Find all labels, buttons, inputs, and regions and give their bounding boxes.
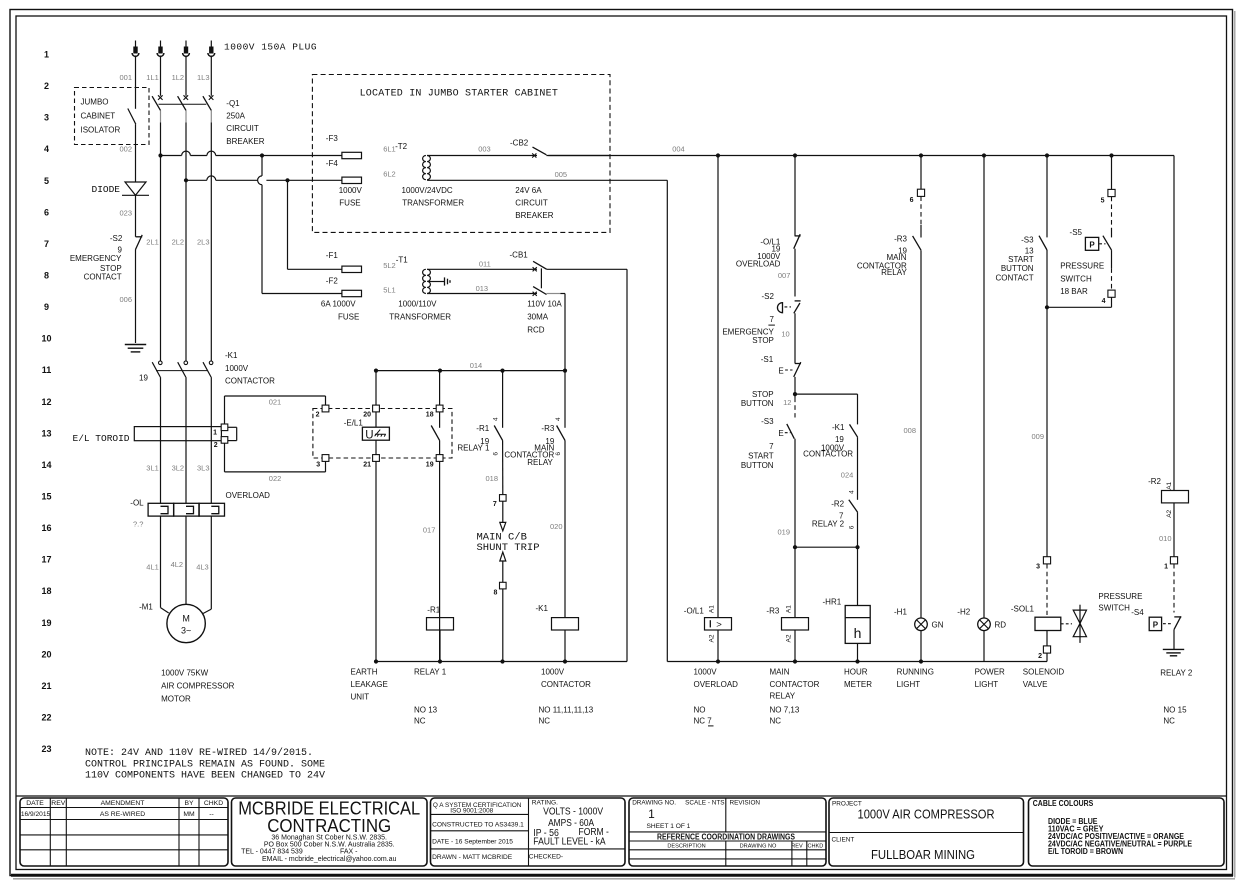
wire 005 down to bottom bus left end bbox=[666, 180, 668, 661]
labels O/L1 19 1000V OVERLOAD bbox=[736, 238, 781, 269]
svg-text:CONTRACTING: CONTRACTING bbox=[267, 815, 391, 836]
svg-text:30MA: 30MA bbox=[527, 313, 549, 322]
svg-text:SWITCH: SWITCH bbox=[1060, 275, 1092, 284]
wire 011 to right edge of 110V section bbox=[547, 269, 627, 661]
pressure switch S5 bbox=[1070, 197, 1112, 291]
grid row numbers 1-23 bbox=[41, 50, 51, 755]
transformer T1 1000/110V bbox=[396, 256, 431, 294]
svg-text:-H1: -H1 bbox=[894, 607, 907, 616]
svg-text:VOLTS - 1000V: VOLTS - 1000V bbox=[543, 806, 603, 817]
svg-text:VALVE: VALVE bbox=[1023, 680, 1048, 689]
overload contact O/L1 bbox=[794, 234, 801, 296]
svg-text:110V COMPONENTS HAVE BEEN CHAN: 110V COMPONENTS HAVE BEEN CHANGED TO 24V bbox=[85, 771, 325, 782]
stop button S1 bbox=[761, 355, 801, 394]
label 110V 10A 30MA RCD bbox=[527, 300, 562, 335]
wire 004 top bus bbox=[548, 144, 1174, 157]
svg-text:21: 21 bbox=[41, 681, 51, 691]
overload relay coil O/L1 I> bbox=[684, 605, 732, 662]
svg-text:1000V AIR COMPRESSOR: 1000V AIR COMPRESSOR bbox=[858, 806, 995, 821]
svg-text:CABLE COLOURS: CABLE COLOURS bbox=[1033, 799, 1094, 808]
contactor K1 main poles bbox=[152, 361, 213, 377]
svg-text:9: 9 bbox=[44, 302, 49, 312]
svg-text:-R3: -R3 bbox=[766, 607, 779, 616]
svg-text:-HR1: -HR1 bbox=[823, 598, 842, 607]
wire label 024 bbox=[841, 471, 854, 480]
svg-text:METER: METER bbox=[844, 680, 872, 689]
svg-text:NC: NC bbox=[539, 717, 551, 726]
svg-text:NO 11,11,11,13: NO 11,11,11,13 bbox=[539, 706, 594, 715]
svg-text:-S5: -S5 bbox=[1070, 228, 1083, 237]
wire label 010 bbox=[1159, 534, 1172, 543]
dashed box LOCATED IN JUMBO STARTER CABINET bbox=[312, 75, 610, 233]
svg-text:009: 009 bbox=[1031, 432, 1044, 441]
svg-text:22: 22 bbox=[41, 712, 51, 722]
svg-text:>: > bbox=[716, 619, 722, 630]
labels MAIN CONTACTOR RELAY / NO 7,13 / NC bbox=[770, 668, 820, 726]
svg-text:5L1: 5L1 bbox=[383, 286, 396, 295]
svg-text:110V 10A: 110V 10A bbox=[527, 300, 562, 309]
svg-text:17: 17 bbox=[41, 555, 51, 565]
svg-text:FAULT LEVEL - kA: FAULT LEVEL - kA bbox=[533, 837, 606, 848]
svg-text:007: 007 bbox=[778, 271, 791, 280]
svg-text:LOCATED IN JUMBO STARTER CABIN: LOCATED IN JUMBO STARTER CABINET bbox=[360, 88, 558, 99]
wire 009 down to solenoid bbox=[1031, 307, 1047, 556]
svg-text:FUSE: FUSE bbox=[339, 198, 360, 207]
solenoid terminal 3 bbox=[1036, 557, 1051, 571]
wire label 007 bbox=[778, 271, 791, 280]
svg-text:EARTH: EARTH bbox=[351, 668, 378, 677]
svg-text:TEL - 0447 834 539: TEL - 0447 834 539 bbox=[241, 849, 303, 856]
labels R3 19 MAIN CONTACTOR RELAY right bbox=[857, 234, 908, 277]
wire R3 coil feed bbox=[794, 547, 796, 617]
svg-text:008: 008 bbox=[903, 426, 916, 435]
svg-text:BY: BY bbox=[184, 800, 194, 807]
running light H1 bbox=[894, 607, 944, 661]
svg-text:P: P bbox=[1153, 621, 1159, 630]
svg-text:6: 6 bbox=[555, 452, 562, 456]
svg-text:h: h bbox=[854, 625, 862, 641]
svg-text:EMERGENCY: EMERGENCY bbox=[70, 254, 122, 263]
wire 003 from T2 to CB2 bbox=[427, 144, 537, 155]
svg-text:19: 19 bbox=[41, 618, 51, 628]
svg-text:CONTACTOR: CONTACTOR bbox=[803, 450, 853, 459]
svg-text:20: 20 bbox=[363, 412, 371, 419]
overload OL heater elements bbox=[148, 503, 224, 609]
labels OL OVERLOAD bbox=[130, 491, 270, 528]
svg-text:3: 3 bbox=[44, 113, 49, 123]
svg-text:BUTTON: BUTTON bbox=[1001, 264, 1034, 273]
svg-text:21: 21 bbox=[363, 462, 371, 469]
wire F4 feed line bbox=[184, 176, 342, 183]
svg-text:UNIT: UNIT bbox=[351, 693, 370, 702]
note text 24V and 110V re-wired bbox=[85, 747, 325, 781]
svg-text:LEAKAGE: LEAKAGE bbox=[351, 680, 388, 689]
svg-text:A1: A1 bbox=[1166, 481, 1173, 489]
svg-text:U: U bbox=[365, 430, 373, 442]
svg-text:4L2: 4L2 bbox=[171, 560, 184, 569]
svg-text:006: 006 bbox=[119, 295, 132, 304]
svg-text:3~: 3~ bbox=[181, 626, 191, 636]
shunt trip terminal 7 bbox=[493, 495, 506, 509]
svg-text:15: 15 bbox=[41, 491, 51, 501]
svg-text:7: 7 bbox=[769, 315, 774, 324]
svg-text:2L3: 2L3 bbox=[197, 238, 210, 247]
svg-text:1000V 75KW: 1000V 75KW bbox=[161, 669, 209, 678]
labels SOLENOID VALVE bbox=[1023, 668, 1065, 690]
svg-text:?.?: ?.? bbox=[133, 520, 143, 529]
svg-text:CHKD: CHKD bbox=[807, 844, 823, 850]
svg-text:SWITCH: SWITCH bbox=[1098, 604, 1130, 613]
svg-text:CHECKED-: CHECKED- bbox=[529, 854, 563, 861]
svg-text:NO 7,13: NO 7,13 bbox=[770, 706, 800, 715]
svg-text:003: 003 bbox=[478, 144, 491, 153]
circuit breaker Q1 poles bbox=[152, 95, 213, 361]
svg-text:4: 4 bbox=[493, 417, 500, 421]
labels RELAY 1 / NO 13 NC bbox=[414, 668, 447, 726]
fuse F4 bbox=[326, 159, 362, 184]
svg-text:DATE - 16 September 2015: DATE - 16 September 2015 bbox=[432, 839, 513, 846]
E/L toroid bbox=[134, 424, 236, 449]
svg-text:-R2: -R2 bbox=[831, 499, 844, 508]
svg-text:6: 6 bbox=[44, 207, 49, 217]
svg-text:1000V: 1000V bbox=[541, 668, 565, 677]
svg-text:18: 18 bbox=[41, 586, 51, 596]
svg-text:-R1: -R1 bbox=[476, 424, 489, 433]
svg-text:-K1: -K1 bbox=[536, 604, 549, 613]
wire phases through toroid to overload bbox=[161, 377, 212, 503]
svg-text:AIR COMPRESSOR: AIR COMPRESSOR bbox=[161, 681, 235, 690]
svg-text:A1: A1 bbox=[786, 605, 793, 613]
svg-text:CONTACTOR: CONTACTOR bbox=[770, 680, 820, 689]
svg-text:START: START bbox=[748, 451, 774, 460]
svg-text:-Q1: -Q1 bbox=[226, 99, 240, 108]
svg-text:1: 1 bbox=[213, 429, 217, 436]
svg-text:LIGHT: LIGHT bbox=[897, 680, 921, 689]
solenoid valve SOL1 coil bbox=[1011, 564, 1072, 631]
svg-text:-S3: -S3 bbox=[1021, 235, 1034, 244]
labels S2 emergency stop contact bbox=[70, 234, 123, 281]
svg-text:CHKD: CHKD bbox=[204, 800, 223, 807]
svg-text:CLIENT: CLIENT bbox=[832, 837, 855, 844]
motor M1 bbox=[139, 603, 211, 643]
label 1000V FUSE (24V side) bbox=[339, 186, 363, 208]
wire labels 2L1 2L2 2L3 bbox=[146, 238, 209, 247]
svg-text:RELAY: RELAY bbox=[527, 458, 553, 467]
svg-text:12: 12 bbox=[783, 398, 791, 407]
wire phase drops from plugs bbox=[136, 57, 212, 109]
svg-text:RELAY 1: RELAY 1 bbox=[457, 443, 490, 452]
shunt trip arrows MAIN C/B SHUNT TRIP bbox=[477, 501, 540, 582]
labels S3 13 START BUTTON CONTACT bbox=[996, 235, 1035, 282]
wire drop to F2 line with hop bbox=[258, 156, 342, 294]
labels RUNNING LIGHT bbox=[897, 668, 934, 690]
svg-text:DRAWN - MATT MCBRIDE: DRAWN - MATT MCBRIDE bbox=[432, 854, 513, 861]
svg-text:REFERENCE COORDINATION DRAWING: REFERENCE COORDINATION DRAWINGS bbox=[657, 833, 795, 842]
svg-text:13: 13 bbox=[41, 428, 51, 438]
labels R2 7 RELAY 2 aux bbox=[812, 499, 855, 529]
wire start/stop chain top bbox=[794, 156, 796, 236]
project client box bbox=[829, 798, 1024, 866]
svg-text:-K1: -K1 bbox=[225, 351, 238, 360]
isolator switch blade bbox=[128, 109, 136, 183]
valve symbol bbox=[1073, 605, 1086, 643]
svg-text:SHEET 1 OF 1: SHEET 1 OF 1 bbox=[647, 823, 691, 830]
svg-text:-SOL1: -SOL1 bbox=[1011, 605, 1035, 614]
svg-text:START: START bbox=[1008, 255, 1034, 264]
svg-text:1L2: 1L2 bbox=[172, 73, 185, 82]
svg-text:-F3: -F3 bbox=[326, 134, 339, 143]
svg-text:CONTROL PRINCIPALS REMAIN AS F: CONTROL PRINCIPALS REMAIN AS FOUND. SOME bbox=[85, 759, 325, 770]
svg-text:19: 19 bbox=[835, 435, 844, 444]
label 6A 1000V FUSE bbox=[321, 300, 359, 322]
svg-text:DIODE: DIODE bbox=[92, 184, 121, 195]
svg-text:CIRCUIT: CIRCUIT bbox=[515, 198, 548, 207]
relay contact R3 running light bbox=[913, 196, 921, 618]
svg-text:-T2: -T2 bbox=[395, 142, 408, 151]
svg-text:DESCRIPTION: DESCRIPTION bbox=[667, 844, 705, 850]
labels 1000V OVERLOAD / NO / NC 7 bbox=[694, 668, 739, 726]
svg-text:013: 013 bbox=[476, 284, 489, 293]
svg-text:A2: A2 bbox=[709, 634, 716, 642]
relay 2 terminal 1 bbox=[1164, 557, 1178, 571]
svg-text:NO 13: NO 13 bbox=[414, 706, 438, 715]
svg-text:-M1: -M1 bbox=[139, 603, 153, 612]
cable colours box bbox=[1029, 798, 1225, 866]
labels STOP BUTTON 12 bbox=[741, 390, 792, 408]
svg-text:CONTACTOR: CONTACTOR bbox=[225, 377, 275, 386]
wire 021 toroid to E/L1 unit bbox=[225, 396, 326, 424]
emergency stop contact S2 bbox=[136, 235, 143, 343]
wire 005 line from T2 secondary bbox=[427, 170, 667, 180]
svg-text:NO 15: NO 15 bbox=[1163, 706, 1187, 715]
svg-text:RELAY 2: RELAY 2 bbox=[812, 519, 845, 528]
circuit breaker CB2 bbox=[510, 138, 610, 157]
hour meter HR1 bbox=[823, 547, 871, 661]
label Q1 250A CIRCUIT BREAKER bbox=[226, 99, 264, 146]
svg-text:PRESSURE: PRESSURE bbox=[1098, 592, 1142, 601]
svg-text:DRAWING NO: DRAWING NO bbox=[740, 844, 777, 850]
svg-text:-F2: -F2 bbox=[326, 277, 339, 286]
wire labels 3L1 3L2 3L3 bbox=[146, 463, 209, 472]
contactor coil K1 bbox=[536, 604, 579, 662]
relay 2 column bbox=[1173, 156, 1175, 491]
svg-text:5L2: 5L2 bbox=[383, 261, 396, 270]
svg-text:2: 2 bbox=[1038, 653, 1042, 660]
svg-text:24V 6A: 24V 6A bbox=[515, 186, 542, 195]
labels 7 START BUTTON bbox=[741, 442, 774, 470]
svg-text:FULLBOAR MINING: FULLBOAR MINING bbox=[871, 847, 975, 862]
relay contact R3 main contactor relay bbox=[557, 371, 565, 618]
bottom bus 24V section bbox=[667, 659, 1047, 663]
wire 013 drop to 014 bus bbox=[547, 294, 566, 371]
svg-text:E/L TOROID: E/L TOROID bbox=[73, 433, 130, 444]
svg-text:CONTACT: CONTACT bbox=[84, 273, 122, 282]
svg-text:4: 4 bbox=[555, 417, 562, 421]
svg-text:NC 7: NC 7 bbox=[694, 717, 713, 726]
svg-text:6: 6 bbox=[848, 525, 855, 529]
emergency stop S2 bbox=[777, 301, 800, 364]
svg-text:BREAKER: BREAKER bbox=[515, 211, 553, 220]
svg-text:6A 1000V: 6A 1000V bbox=[321, 300, 356, 309]
svg-text:018: 018 bbox=[485, 474, 498, 483]
transformer screen earth bbox=[429, 277, 450, 285]
svg-text:-K1: -K1 bbox=[832, 423, 845, 432]
svg-text:MOTOR: MOTOR bbox=[161, 694, 191, 703]
svg-text:-O/L1: -O/L1 bbox=[684, 607, 705, 616]
svg-text:-S1: -S1 bbox=[761, 355, 774, 364]
svg-text:3L3: 3L3 bbox=[197, 463, 210, 472]
wire label 008 bbox=[903, 426, 916, 435]
svg-text:7: 7 bbox=[769, 442, 774, 451]
svg-text:19: 19 bbox=[426, 462, 434, 469]
ground symbol below S2 bbox=[125, 345, 146, 352]
wire labels 5L2 5L1 bbox=[383, 261, 396, 295]
svg-text:GN: GN bbox=[932, 620, 944, 629]
svg-text:3L1: 3L1 bbox=[146, 463, 159, 472]
svg-text:4L1: 4L1 bbox=[146, 563, 159, 572]
wire label 006 bbox=[119, 295, 132, 304]
transformer T2 1000V/24VDC bbox=[395, 142, 430, 180]
svg-text:REV: REV bbox=[51, 800, 65, 807]
svg-text:5: 5 bbox=[44, 176, 49, 186]
svg-text:RELAY: RELAY bbox=[881, 268, 907, 277]
label 1000V/24VDC TRANSFORMER bbox=[402, 186, 465, 208]
svg-text:-H2: -H2 bbox=[957, 607, 970, 616]
labels K1 19 1000V CONTACTOR aux bbox=[803, 423, 853, 459]
start button S3 bbox=[761, 394, 795, 547]
svg-text:12: 12 bbox=[41, 397, 51, 407]
labels R1 RELAY 1 contact bbox=[457, 417, 499, 456]
svg-text:ISO 9001:2008: ISO 9001:2008 bbox=[450, 807, 493, 814]
svg-text:2: 2 bbox=[44, 81, 49, 91]
labels PRESSURE SWITCH 18 BAR bbox=[1060, 261, 1104, 296]
svg-text:024: 024 bbox=[841, 471, 854, 480]
svg-text:6: 6 bbox=[493, 452, 500, 456]
labels 1000V CONTACTOR / NO NC bbox=[539, 668, 594, 726]
wire 011 from T1 to CB1 bbox=[427, 259, 537, 269]
svg-text:1: 1 bbox=[648, 807, 655, 821]
svg-text:RELAY: RELAY bbox=[770, 692, 796, 701]
svg-text:E: E bbox=[778, 429, 783, 438]
svg-text:3L2: 3L2 bbox=[172, 463, 185, 472]
svg-text:20: 20 bbox=[41, 649, 51, 659]
label K1 1000V CONTACTOR bbox=[139, 351, 275, 386]
svg-text:E/L TOROID = BROWN: E/L TOROID = BROWN bbox=[1048, 847, 1123, 856]
svg-text:1000V: 1000V bbox=[339, 186, 363, 195]
svg-text:TRANSFORMER: TRANSFORMER bbox=[389, 313, 451, 322]
svg-text:2L1: 2L1 bbox=[146, 238, 159, 247]
svg-text:11: 11 bbox=[42, 365, 52, 375]
svg-text:FAX -: FAX - bbox=[340, 849, 358, 856]
svg-text:A1: A1 bbox=[709, 605, 716, 613]
labels PRESSURE SWITCH -S4 bbox=[1098, 592, 1144, 617]
svg-text:RELAY 2: RELAY 2 bbox=[1160, 669, 1193, 678]
svg-text:4: 4 bbox=[44, 144, 49, 154]
svg-text:3: 3 bbox=[1036, 563, 1040, 570]
svg-text:A2: A2 bbox=[1166, 509, 1173, 517]
svg-text:SCALE - NTS: SCALE - NTS bbox=[685, 800, 724, 807]
wire label 020 bbox=[550, 522, 563, 531]
svg-text:DATE: DATE bbox=[26, 800, 44, 807]
fuse F2 bbox=[326, 277, 362, 297]
svg-text:004: 004 bbox=[672, 144, 685, 153]
svg-text:14: 14 bbox=[41, 460, 51, 470]
svg-text:-S4: -S4 bbox=[1131, 608, 1144, 617]
svg-text:A2: A2 bbox=[786, 634, 793, 642]
bottom bus 110V section bbox=[374, 659, 627, 663]
svg-text:19: 19 bbox=[139, 373, 148, 382]
wire 014 bus bbox=[374, 361, 567, 373]
svg-text:1000V: 1000V bbox=[225, 364, 249, 373]
svg-text:2L2: 2L2 bbox=[172, 238, 185, 247]
E/L1 aux contact 18-19 bbox=[431, 371, 439, 662]
svg-text:BUTTON: BUTTON bbox=[741, 399, 774, 408]
relay contact R1 to shunt trip bbox=[494, 371, 503, 495]
svg-text:022: 022 bbox=[269, 474, 282, 483]
svg-text:-R2: -R2 bbox=[1148, 477, 1161, 486]
running light column terminal 6 bbox=[910, 156, 925, 205]
svg-text:-CB1: -CB1 bbox=[510, 251, 529, 260]
svg-text:6: 6 bbox=[910, 197, 914, 204]
svg-text:RCD: RCD bbox=[527, 326, 545, 335]
svg-text:RUNNING: RUNNING bbox=[897, 668, 934, 677]
svg-text:CIRCUIT: CIRCUIT bbox=[226, 124, 259, 133]
svg-text:1000V: 1000V bbox=[694, 668, 718, 677]
svg-text:TRANSFORMER: TRANSFORMER bbox=[402, 198, 464, 207]
wire overload coil column bbox=[717, 156, 719, 618]
svg-text:10: 10 bbox=[41, 334, 51, 344]
svg-text:FUSE: FUSE bbox=[338, 313, 359, 322]
svg-text:1L3: 1L3 bbox=[197, 73, 210, 82]
svg-text:-T1: -T1 bbox=[396, 256, 409, 265]
svg-text:1: 1 bbox=[1164, 563, 1168, 570]
wire 022 E/L1 unit to toroid bbox=[225, 443, 326, 483]
svg-text:BUTTON: BUTTON bbox=[741, 461, 774, 470]
svg-text:-F4: -F4 bbox=[326, 159, 339, 168]
labels EARTH LEAKAGE UNIT bbox=[351, 668, 388, 702]
wire label 023 bbox=[119, 209, 132, 218]
wire labels 001 1L1 1L2 1L3 bbox=[119, 73, 209, 82]
svg-text:BREAKER: BREAKER bbox=[226, 137, 264, 146]
relay coil R1 bbox=[427, 606, 454, 662]
E/L1 relay box U bbox=[362, 371, 389, 662]
svg-text:REV: REV bbox=[791, 844, 803, 850]
svg-text:014: 014 bbox=[470, 361, 483, 370]
svg-text:CONTACTOR: CONTACTOR bbox=[541, 680, 591, 689]
svg-text:-R3: -R3 bbox=[541, 424, 554, 433]
svg-text:10: 10 bbox=[781, 330, 789, 339]
revision table bbox=[20, 798, 228, 866]
svg-text:010: 010 bbox=[1159, 534, 1172, 543]
svg-text:OVERLOAD: OVERLOAD bbox=[736, 260, 781, 269]
svg-text:-F1: -F1 bbox=[326, 251, 339, 260]
jumbo cabinet isolator dashed box bbox=[75, 88, 150, 145]
svg-text:NC: NC bbox=[1163, 717, 1175, 726]
circuit breaker CB1 RCD bbox=[510, 251, 547, 296]
svg-text:-CB2: -CB2 bbox=[510, 138, 529, 147]
svg-text:--: -- bbox=[209, 811, 214, 818]
svg-text:020: 020 bbox=[550, 522, 563, 531]
svg-text:P: P bbox=[1089, 241, 1095, 250]
pressure switch S4 bbox=[1149, 564, 1181, 650]
label 1000V 150A PLUG bbox=[224, 42, 317, 53]
svg-text:NC: NC bbox=[770, 717, 782, 726]
fuse F1 bbox=[326, 251, 362, 272]
E/L1 terminals bbox=[316, 405, 443, 469]
svg-text:2: 2 bbox=[214, 442, 218, 449]
svg-text:7: 7 bbox=[44, 239, 49, 249]
company box MCBRIDE ELECTRICAL CONTRACTING bbox=[232, 798, 428, 867]
